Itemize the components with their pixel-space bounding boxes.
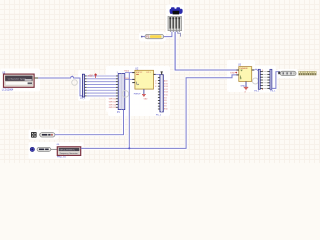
svg-text:FRQ_G1: FRQ_G1 <box>57 157 67 159</box>
header P1 strip (16-pin) <box>118 74 125 110</box>
wire U3 TX to header P3 (with hop) <box>254 69 258 70</box>
component R1 capsule <box>39 133 55 137</box>
junction <box>128 147 130 149</box>
wire SW1/R1 net up to P1 bottom <box>55 110 124 135</box>
selection highlight circle right of U3 <box>252 78 258 84</box>
svg-text:4: 4 <box>155 86 156 88</box>
svg-text:GPIO13: GPIO13 <box>109 102 117 104</box>
svg-text:P2_1: P2_1 <box>80 98 86 100</box>
push button SW1 (checkered icon) <box>31 132 37 138</box>
svg-text:IO16: IO16 <box>164 83 168 85</box>
selection highlight circle on P1 <box>122 91 129 98</box>
P6 left red pin numbers <box>155 80 156 88</box>
LED LED1 (blue circle) <box>30 147 34 151</box>
power net flag +5V on bus wire 1 <box>88 74 97 78</box>
svg-text:GPIO15: GPIO15 <box>109 107 117 109</box>
ground under U3 <box>244 87 248 89</box>
wire P1 to U2 RXD0 <box>125 78 135 80</box>
connector J1 micro-USB plug icon <box>170 7 183 14</box>
header P4 strip <box>270 69 272 89</box>
svg-text:IO15: IO15 <box>164 95 168 97</box>
P1 lower pin net labels (red) <box>109 99 117 109</box>
wire P4 bottom to diode D1 <box>272 72 280 89</box>
svg-text:IO2: IO2 <box>164 97 167 99</box>
svg-text:IO0: IO0 <box>164 100 167 102</box>
svg-text:GPIO12: GPIO12 <box>109 99 117 101</box>
DS1 output pin stub <box>34 77 38 78</box>
svg-text:P6_1: P6_1 <box>156 114 162 116</box>
svg-text:PWR.F: PWR.F <box>134 94 141 96</box>
svg-text:GPIO14: GPIO14 <box>109 104 117 106</box>
display module DS1 <box>4 74 35 87</box>
svg-text:IO14: IO14 <box>164 86 168 88</box>
svg-text:AD0: AD0 <box>164 80 168 83</box>
wire stub left of F1 <box>142 36 145 38</box>
diode D1 capsule <box>278 71 296 75</box>
bus wire 7 <box>87 92 117 94</box>
bus header P2 strip <box>82 74 86 97</box>
wire R2 to module G1 <box>52 148 57 150</box>
fuse F1 <box>145 34 164 38</box>
wire J1 VBUS down to U3 pin 1 <box>175 32 236 71</box>
bus wire 2 <box>87 78 117 80</box>
P1 pins (left side) <box>116 76 118 108</box>
selection highlight circle near bus <box>72 80 78 86</box>
svg-text:IO4: IO4 <box>164 103 167 105</box>
svg-text:1: 1 <box>117 72 118 74</box>
svg-text:ESP12: ESP12 <box>136 72 143 74</box>
P6 pins (left side) <box>158 77 160 109</box>
component R2 capsule <box>37 148 52 152</box>
U2 ground pin stub <box>143 89 145 94</box>
svg-text:P3_1: P3_1 <box>254 91 260 93</box>
bus wire 5 <box>87 86 117 88</box>
svg-text:IO5: IO5 <box>164 106 167 108</box>
svg-text:IO12: IO12 <box>164 89 168 91</box>
pad array P5 (8 pads) <box>299 71 317 75</box>
net label TXD <box>230 72 237 75</box>
module G1 (frequency generator) <box>57 147 80 156</box>
svg-text:Configuration Type(s): Configuration Type(s) <box>8 77 26 80</box>
bus wire 8 <box>87 95 117 97</box>
svg-text:LCD12864: LCD12864 <box>2 89 14 92</box>
connector J1 shield pin hook <box>178 31 181 37</box>
P6 right red net labels <box>164 80 168 111</box>
wire DS1 to bus header P2 <box>38 77 82 96</box>
P3/P4 pin rows <box>260 71 269 89</box>
ground under U2 <box>142 94 146 96</box>
svg-text:1: 1 <box>72 75 73 77</box>
wire TXD0 tee down to bottom net <box>128 73 130 149</box>
svg-text:IO13: IO13 <box>164 92 168 94</box>
svg-text:2: 2 <box>155 80 156 82</box>
svg-text:TXD0: TXD0 <box>124 71 130 73</box>
bus wire 6 <box>87 89 117 91</box>
svg-text:GEN 0-999999 Hz: GEN 0-999999 Hz <box>59 150 75 152</box>
svg-text:3: 3 <box>155 83 156 85</box>
svg-text:Frequency Generator: Frequency Generator <box>60 152 78 155</box>
IC U3 (USB-UART bridge) <box>236 67 254 82</box>
U3 ground pin stub <box>245 81 247 87</box>
IC U2 (ESP module) <box>132 70 156 89</box>
wire J1 pin to fuse F1 <box>164 32 172 37</box>
bus wire 3 <box>87 81 117 83</box>
connector J1 body (USB receptacle symbol) <box>168 17 182 33</box>
svg-text:P4_1: P4_1 <box>270 91 276 93</box>
svg-text:+5V: +5V <box>88 75 93 78</box>
wire U2 to header P6 <box>156 73 160 75</box>
bus wire 1 <box>87 75 117 77</box>
wire G1 output up to U3 RXD <box>81 75 237 148</box>
header P6 strip (right of U2) <box>160 71 163 112</box>
halo layer (white glow under wires and components) <box>38 32 280 149</box>
bus wire 4 <box>87 84 117 86</box>
header P3 strip <box>258 69 260 89</box>
wire P1 to U2 TXD0 <box>125 72 135 74</box>
svg-text:TXD: TXD <box>230 72 235 74</box>
